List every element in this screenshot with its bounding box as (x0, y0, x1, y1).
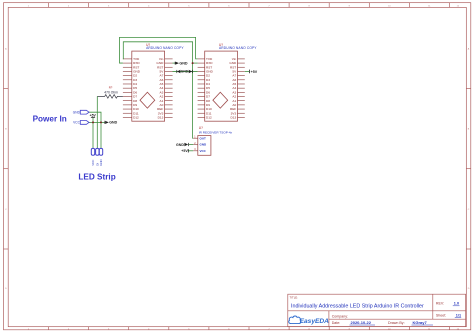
svg-text:Company:: Company: (332, 315, 348, 319)
svg-text:12: 12 (457, 5, 460, 7)
ground flag GND at power input (105, 121, 118, 125)
IC U2 ARDUINO NANO COPY (198, 43, 258, 121)
svg-text:GND: GND (99, 159, 103, 165)
svg-text:470 Ohm: 470 Ohm (104, 91, 118, 95)
svg-text:2020-10-22: 2020-10-22 (351, 320, 372, 325)
svg-text:3: 3 (108, 5, 110, 7)
svg-text:B: B (468, 129, 470, 131)
ground flag GND at U3.GND (176, 143, 189, 147)
connector P1 LED strip header (91, 148, 103, 165)
svg-text:IR RECEIVER TSOP-4x: IR RECEIVER TSOP-4x (199, 130, 233, 134)
svg-text:Drawn By:: Drawn By: (388, 321, 405, 325)
svg-text:Sheet:: Sheet: (436, 314, 446, 318)
svg-text:TITLE:: TITLE: (290, 296, 299, 300)
net label GND (power in) (73, 110, 89, 114)
net label VCC (power in) (73, 121, 89, 125)
resistor R? 470 Ohm (97, 86, 123, 99)
svg-text:GND: GND (109, 121, 117, 125)
svg-text:D12: D12 (133, 115, 139, 119)
power flag +5V at power input (90, 114, 97, 118)
ground flag GND at U1.GND (175, 61, 188, 65)
junction VCC/+5V (92, 121, 94, 123)
svg-text:C: C (468, 209, 470, 211)
svg-text:6: 6 (228, 5, 230, 7)
svg-text:10: 10 (388, 5, 391, 7)
svg-text:A: A (5, 47, 7, 50)
svg-text:Date:: Date: (332, 321, 341, 325)
svg-text:LED Strip: LED Strip (78, 173, 115, 182)
wire U3.GND to GND flag (189, 144, 193, 146)
power flag +5V at U2.5V (249, 70, 257, 74)
svg-text:GND: GND (179, 61, 188, 65)
net flag pair GND between U1.5V and U2.GND (177, 70, 193, 74)
svg-text:GND: GND (200, 143, 208, 147)
svg-text:+5V: +5V (251, 70, 258, 74)
wire junction to U3.OUT (192, 63, 195, 138)
svg-text:4: 4 (148, 5, 150, 7)
svg-text:D: D (468, 288, 470, 290)
svg-text:7: 7 (268, 5, 270, 7)
svg-text:OUT: OUT (200, 136, 207, 140)
svg-text:1.0: 1.0 (454, 302, 459, 306)
svg-text:D12: D12 (206, 115, 212, 119)
svg-text:EasyEDA: EasyEDA (300, 318, 330, 325)
svg-text:Power In: Power In (33, 115, 67, 124)
svg-text:11: 11 (428, 5, 431, 7)
svg-text:+5V: +5V (181, 149, 188, 153)
svg-text:8: 8 (308, 5, 310, 7)
wire VCC net label across (89, 121, 105, 123)
wire U1.GND to GND flag (173, 62, 175, 64)
svg-text:9: 9 (349, 5, 351, 7)
svg-text:D: D (5, 288, 7, 290)
svg-text:1: 1 (28, 5, 30, 7)
svg-text:D13: D13 (158, 115, 164, 119)
power flag +5V at U3.VCC (181, 149, 188, 153)
svg-text:B: B (5, 129, 7, 131)
IC U3 IR RECEIVER TSOP-4x (193, 126, 232, 155)
wire +5V flag stem (92, 117, 94, 122)
svg-text:Individually Addressable LED S: Individually Addressable LED Strip Ardui… (291, 303, 424, 309)
svg-text:GND: GND (181, 70, 189, 74)
svg-text:ARDUINO NANO COPY: ARDUINO NANO COPY (219, 46, 257, 50)
junction GND wire (100, 121, 102, 123)
svg-text:1/1: 1/1 (456, 314, 461, 318)
wire U1.TXD to junction (123, 42, 193, 63)
svg-text:VCC: VCC (73, 121, 80, 125)
svg-text:5: 5 (188, 5, 190, 7)
svg-text:2: 2 (68, 5, 70, 7)
svg-text:GND: GND (73, 111, 81, 115)
svg-text:C: C (5, 209, 7, 211)
svg-text:REV:: REV: (436, 302, 444, 306)
svg-text:KGray7: KGray7 (413, 320, 428, 325)
wire U1.RXD to U2.TXD (120, 37, 198, 63)
svg-text:R?: R? (109, 86, 113, 90)
wire U2.5V to +5V flag (245, 70, 249, 72)
svg-text:A: A (468, 47, 470, 50)
wire U3.VCC to +5V flag (189, 150, 194, 152)
wire junction to U2.RXD (193, 62, 198, 64)
wire VCC down to LED strip VCC (92, 122, 94, 148)
svg-text:ARDUINO NANO COPY: ARDUINO NANO COPY (146, 46, 184, 50)
junction TXD net (192, 62, 194, 64)
wire data D7 to LED strip (96, 96, 98, 148)
svg-text:D13: D13 (231, 115, 237, 119)
svg-text:VCC: VCC (200, 149, 207, 153)
svg-text:GND: GND (176, 143, 184, 147)
IC U1 ARDUINO NANO COPY (123, 43, 185, 121)
wire GND net label to LED strip GND (89, 112, 101, 148)
wire U1.5V to U2.GND (173, 70, 198, 72)
